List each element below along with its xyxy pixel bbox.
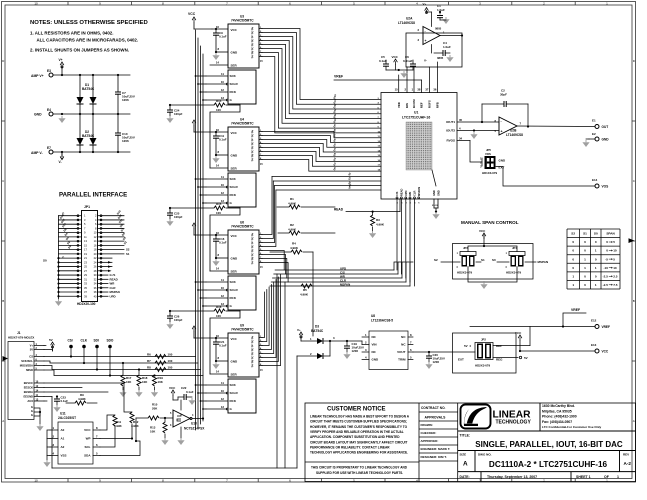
wire (34, 387, 44, 389)
svg-text:S1: S1 (126, 252, 130, 256)
wire (79, 145, 81, 152)
wire U9 QF (259, 345, 262, 347)
VCC arrow span (482, 233, 486, 239)
svg-text:EESDA: EESDA (24, 390, 33, 394)
junction (39, 411, 41, 413)
junction (215, 234, 217, 236)
svg-text:10: 10 (613, 266, 617, 270)
wire VOS (496, 167, 595, 187)
V+ arrow (60, 62, 64, 68)
svg-text:A-2: A-2 (624, 461, 632, 466)
svg-text:V-: V- (59, 160, 62, 164)
junction (329, 340, 331, 342)
svg-text:0: 0 (606, 240, 608, 244)
wire JP1 right (103, 215, 125, 217)
svg-text:10: 10 (34, 1, 38, 5)
svg-text:D3: D3 (315, 325, 319, 329)
wire RVOS (457, 140, 470, 142)
junction (57, 282, 59, 284)
terminal (595, 125, 599, 129)
wire (408, 359, 413, 361)
ground C9 (212, 53, 219, 60)
junction (138, 368, 140, 370)
junction (169, 104, 171, 106)
wire (484, 246, 517, 252)
wire (93, 429, 100, 431)
svg-text:20K: 20K (152, 407, 158, 411)
capacitor C23 (54, 399, 60, 401)
wire EEVCC drop (124, 383, 132, 412)
wire (300, 338, 302, 341)
wire data bus D7-D0 (262, 132, 381, 172)
junction (56, 395, 58, 397)
U1 hatched die area (406, 122, 432, 170)
svg-text:S1: S1 (583, 232, 587, 236)
svg-text:100pF: 100pF (174, 318, 183, 322)
wire JP1 right (103, 270, 109, 272)
resistor R19 (153, 375, 157, 386)
junction (215, 257, 217, 259)
U4 body upper (228, 127, 259, 171)
capacitor C1 (437, 16, 443, 18)
svg-text:13: 13 (221, 199, 225, 203)
wire (154, 374, 156, 377)
svg-text:0: 0 (572, 240, 574, 244)
svg-text:-5: -5 (605, 257, 608, 261)
wire (440, 19, 446, 21)
svg-text:100pF: 100pF (174, 215, 183, 219)
approvals column (419, 412, 458, 461)
wire E7 rail (53, 151, 130, 153)
ground C11 (212, 156, 219, 163)
wire U3 SCLR (206, 83, 227, 85)
svg-text:1: 1 (595, 266, 597, 270)
wire U6 QG (259, 238, 262, 240)
wire (66, 402, 75, 404)
VCC arrow (394, 59, 398, 65)
svg-text:MISO: MISO (26, 368, 33, 372)
wire JP1 left (59, 219, 77, 221)
svg-text:HOWEVER, IT REMAINS THE CUSTOM: HOWEVER, IT REMAINS THE CUSTOMER'S RESPO… (310, 425, 408, 429)
wire (278, 232, 289, 234)
VCC arrow U6 (192, 223, 196, 229)
svg-text:BAT54C: BAT54C (311, 329, 324, 333)
svg-text:A: A (633, 419, 635, 423)
resistor R16 (214, 309, 225, 313)
wire (117, 94, 119, 114)
svg-text:VOS: VOS (485, 152, 491, 156)
zone marker left (3, 356, 9, 361)
wire READ (346, 211, 400, 213)
wire (215, 235, 217, 239)
junction (61, 113, 63, 115)
svg-text:JP3: JP3 (463, 246, 468, 250)
title block outline (305, 403, 636, 482)
svg-text:U1: U1 (414, 111, 418, 115)
wire U4 SCLR (206, 186, 227, 188)
U9 G bubble (226, 408, 228, 410)
svg-text:15: 15 (395, 88, 399, 92)
wire (445, 52, 450, 54)
wire U6 QA (259, 262, 262, 264)
wire (50, 429, 58, 431)
svg-text:+: + (501, 130, 503, 134)
svg-text:0: 0 (595, 257, 597, 261)
capacitor C25 (167, 213, 173, 215)
junction (398, 69, 400, 71)
wire S0 row (275, 185, 381, 187)
junction (135, 440, 137, 442)
svg-text:R14: R14 (216, 99, 222, 103)
wire signal (44, 356, 196, 358)
svg-text:5: 5 (613, 240, 615, 244)
wire (52, 348, 54, 351)
svg-text:LTC2751CUHF-16: LTC2751CUHF-16 (402, 116, 430, 120)
jumper JP5 (485, 156, 496, 169)
ground (55, 299, 62, 306)
wire U2A feedback box (406, 33, 462, 67)
wire VDD (398, 75, 400, 93)
net flag arrow (108, 270, 112, 272)
svg-text:1: 1 (584, 257, 586, 261)
span table (567, 229, 620, 289)
svg-text:GND: GND (372, 358, 380, 362)
svg-text:R3: R3 (376, 218, 380, 222)
junction (215, 337, 217, 339)
svg-text:14: 14 (216, 267, 220, 271)
wire U4 QC (259, 151, 262, 153)
wire (408, 344, 413, 346)
svg-text:CIRCUIT BOARD LAYOUT MAY SIGNI: CIRCUIT BOARD LAYOUT MAY SIGNIFICANTLY A… (310, 440, 408, 444)
wire GND rail (53, 113, 130, 115)
junction (79, 74, 81, 76)
wire span gnd (468, 267, 484, 283)
svg-text:IOUT2: IOUT2 (446, 129, 455, 133)
span jumper area box (453, 244, 534, 280)
svg-text:G: G (31, 409, 33, 413)
svg-text:1: 1 (617, 475, 619, 479)
EEPROM U11 body (58, 422, 93, 464)
svg-text:E2: E2 (592, 132, 596, 136)
DAC U1 body (381, 93, 457, 200)
resistor R4 (291, 250, 302, 254)
junction (109, 374, 111, 376)
svg-text:VOUT: VOUT (397, 350, 406, 354)
wire (215, 132, 217, 136)
wire (525, 261, 536, 263)
wire (519, 341, 521, 351)
wire (372, 212, 374, 215)
wire U6 QD (259, 250, 262, 252)
wire (93, 446, 100, 448)
net flag arrow (108, 265, 112, 267)
U3 G bubble (226, 99, 228, 101)
svg-text:30pF: 30pF (500, 93, 507, 97)
terminal (595, 184, 599, 188)
svg-text:REG: REG (496, 358, 503, 362)
wire JP1 gnd rail (58, 216, 60, 299)
wire (215, 241, 217, 258)
wire JP1 right (103, 223, 125, 225)
svg-text:S2: S2 (434, 258, 438, 262)
diode D3b (317, 353, 323, 359)
svg-text:LTC Confidential-For Customer: LTC Confidential-For Customer Use Only (542, 425, 601, 429)
svg-text:TRIM: TRIM (398, 358, 406, 362)
svg-text:R1: R1 (290, 197, 294, 201)
wire JP1 left (59, 266, 77, 268)
svg-text:0: 0 (572, 257, 574, 261)
wire E3 rail (53, 74, 130, 76)
wire (297, 355, 317, 357)
net flag arrow (108, 261, 112, 263)
wire (215, 138, 217, 155)
svg-text:HD2X3-079: HD2X3-079 (457, 271, 472, 275)
junction (92, 74, 94, 76)
ground C1 (442, 17, 449, 24)
connector J1 body (8, 342, 34, 420)
svg-text:1: 1 (595, 249, 597, 253)
svg-text:R2: R2 (290, 223, 294, 227)
wire U9 G (206, 408, 227, 410)
wire U3 QC (259, 48, 262, 50)
svg-text:0.1uF: 0.1uF (219, 35, 227, 39)
U4 G bubble (226, 202, 228, 204)
wire RCOM (413, 67, 415, 93)
U6 G bubble (226, 305, 228, 307)
svg-text:SCLR: SCLR (230, 288, 239, 292)
ground C5/C6 (400, 71, 407, 78)
wire (34, 356, 44, 358)
wire (301, 206, 335, 208)
wire U4 RCK (206, 194, 228, 196)
svg-text:A: A (463, 461, 468, 468)
wire OUT (517, 125, 595, 128)
junction (57, 278, 59, 280)
wire EEGND drop (51, 397, 53, 469)
wire (586, 138, 589, 140)
wire (385, 60, 387, 64)
capacitor C22 (184, 394, 186, 400)
wire control bus (196, 30, 204, 430)
junction (57, 287, 59, 289)
wire U9 VCC pin (212, 337, 228, 339)
svg-text:GND: GND (602, 138, 610, 142)
wire U11 left drops (47, 430, 50, 460)
connector JP1 body (82, 211, 98, 302)
wire (194, 28, 212, 30)
wire (527, 104, 529, 127)
wire (92, 104, 94, 114)
svg-text:12: 12 (221, 191, 225, 195)
terminal (595, 137, 599, 141)
U1 pin bubble (414, 197, 416, 199)
resistor R12 (130, 412, 134, 423)
svg-text:14: 14 (216, 164, 220, 168)
svg-text:CHECKED:: CHECKED: (421, 431, 437, 435)
wire signal (44, 361, 198, 363)
wire U4 QF (259, 139, 262, 141)
wire (408, 336, 413, 338)
svg-text:0: 0 (584, 240, 586, 244)
op-amp U2B (499, 117, 517, 135)
wire (270, 251, 291, 253)
svg-text:SCLR: SCLR (230, 82, 239, 86)
svg-text:RFB: RFB (436, 102, 440, 108)
wire (226, 310, 240, 312)
svg-text:S0: S0 (492, 258, 496, 262)
wire U3 QD (259, 44, 262, 46)
svg-text:SCK: SCK (230, 177, 237, 181)
svg-text:0805: 0805 (437, 56, 444, 60)
svg-text:4.99K: 4.99K (290, 246, 299, 250)
svg-text:1206: 1206 (122, 98, 129, 102)
svg-text:R8: R8 (147, 365, 151, 369)
diode D1a (77, 97, 84, 104)
wire (135, 418, 137, 441)
svg-text:11: 11 (221, 175, 224, 179)
V+ arrow U2A (425, 8, 429, 14)
wire U3 SCK (206, 75, 228, 77)
svg-text:Phone: (408)432-1900: Phone: (408)432-1900 (542, 415, 577, 419)
wire IOUT1 (457, 121, 499, 123)
capacitor C7 (115, 92, 121, 94)
wire (386, 69, 413, 71)
U1 pin bubble (418, 197, 420, 199)
wire JP1 left (59, 240, 77, 242)
junction (61, 74, 63, 76)
ground R19 (151, 390, 158, 397)
wire (169, 318, 171, 322)
wire U9 QC (259, 357, 262, 359)
svg-text:UPD: UPD (110, 294, 116, 298)
svg-text:34: 34 (459, 137, 463, 141)
junction (215, 154, 217, 156)
wire U1 die to gnd (432, 170, 436, 186)
svg-text:5V: 5V (49, 338, 53, 342)
svg-text:DWG NO.: DWG NO. (478, 453, 492, 457)
wire U9 SCLR (206, 392, 227, 394)
wire (180, 400, 182, 410)
svg-text:2.5: 2.5 (613, 275, 618, 279)
svg-text:10: 10 (221, 183, 225, 187)
wire EEVCC (44, 382, 124, 384)
ground R17 (119, 390, 126, 397)
svg-text:LT1469CS8: LT1469CS8 (506, 133, 523, 137)
wire (164, 418, 166, 422)
resistor R9 (75, 401, 86, 405)
svg-text:0: 0 (595, 275, 597, 279)
svg-text:VCC: VCC (479, 229, 486, 233)
svg-text:1206: 1206 (122, 139, 129, 143)
wire (93, 438, 100, 440)
capacitor C20 (426, 356, 432, 358)
svg-text:V-: V- (424, 59, 427, 63)
svg-text:A: A (2, 419, 4, 423)
wire JP1 left (59, 249, 77, 251)
svg-text:37: 37 (425, 88, 429, 92)
svg-text:VCC: VCC (84, 428, 91, 432)
svg-text:10K: 10K (158, 380, 164, 384)
junction (169, 207, 171, 209)
wire (193, 126, 195, 132)
wire REG (493, 357, 518, 359)
svg-text:MOSI/SDA: MOSI/SDA (20, 364, 33, 368)
wire (226, 104, 240, 106)
wire (50, 438, 58, 440)
svg-text:13: 13 (221, 302, 225, 306)
wire (301, 232, 335, 234)
U1 pin bubble (409, 197, 411, 199)
svg-text:SPAN: SPAN (606, 232, 615, 236)
resistor R14 (214, 103, 225, 107)
wire U3 RCK (206, 91, 228, 93)
svg-text:ROFS: ROFS (428, 100, 432, 108)
jumper JP2 (475, 343, 493, 360)
svg-text:VCC: VCC (169, 386, 176, 390)
wire (193, 229, 195, 235)
wire (34, 345, 44, 347)
svg-text:ALL CAPACITORS ARE IN MICROFAR: ALL CAPACITORS ARE IN MICROFARADS, 0402. (37, 38, 139, 43)
svg-text:AMP V+: AMP V+ (31, 74, 44, 78)
net flag 5V (519, 356, 521, 358)
wire JP1 left (59, 261, 77, 263)
svg-text:GND: GND (499, 159, 507, 163)
U3 body upper (228, 24, 259, 68)
svg-text:PERFORMANCE OR RELIABILITY. C: PERFORMANCE OR RELIABILITY. CONTACT LINE… (310, 445, 390, 449)
wire R4 drop (312, 252, 314, 336)
wire (431, 45, 433, 54)
svg-text:VREF: VREF (334, 75, 343, 79)
svg-text:1.0uF: 1.0uF (443, 45, 451, 49)
svg-text:READ: READ (400, 189, 404, 196)
junction (483, 245, 485, 247)
svg-text:11: 11 (221, 72, 224, 76)
svg-text:WP: WP (86, 437, 91, 441)
svg-text:RIN: RIN (405, 103, 409, 108)
junction (117, 151, 119, 153)
resistor R5 (301, 284, 312, 288)
wire (215, 338, 217, 342)
wire JP1 left (59, 253, 77, 255)
svg-text:S2: S2 (571, 232, 575, 236)
wire RIN (406, 67, 408, 93)
junction (481, 121, 483, 123)
svg-text:MANUAL SPAN CONTROL: MANUAL SPAN CONTROL (461, 220, 519, 225)
svg-text:EXT: EXT (458, 358, 464, 362)
wire (92, 145, 94, 152)
wire U4 QH (259, 131, 262, 133)
svg-text:B: B (2, 299, 4, 303)
svg-text:APPROVALS: APPROVALS (425, 416, 447, 420)
wire (169, 215, 171, 219)
svg-text:SCLR: SCLR (230, 391, 239, 395)
svg-text:HD2X3-079: HD2X3-079 (475, 364, 490, 368)
junction (215, 51, 217, 53)
svg-text:100: 100 (216, 108, 221, 112)
zone marker right (629, 238, 635, 243)
U1 pin bubble (401, 197, 403, 199)
wire (186, 396, 192, 398)
5V arrow (51, 342, 55, 348)
wire (439, 12, 441, 14)
test point SDI pad (95, 345, 99, 349)
svg-text:E3: E3 (47, 69, 51, 73)
svg-text:0: 0 (572, 249, 574, 253)
svg-text:0.01uF: 0.01uF (403, 59, 413, 63)
wire (170, 310, 214, 312)
svg-text:VCC: VCC (231, 131, 238, 135)
svg-text:VREF: VREF (571, 308, 580, 312)
